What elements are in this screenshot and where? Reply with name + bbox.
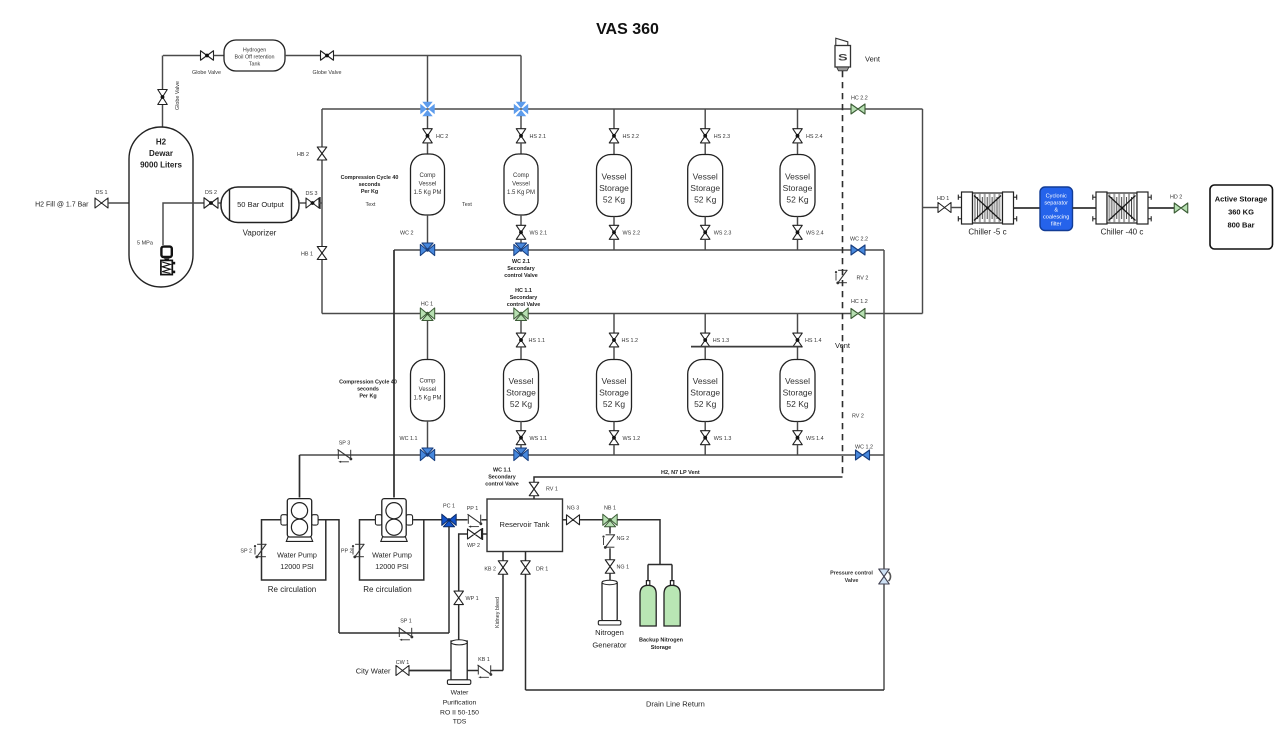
pressure control valve (879, 569, 890, 584)
vessel storage row1 col4 (688, 155, 723, 217)
valve HC 1.2 (851, 309, 865, 319)
svg-text:12000 PSI: 12000 PSI (375, 562, 409, 571)
valve PC 1 (3-way) (442, 514, 449, 525)
valve HB 2 (317, 147, 327, 160)
wire HS 1.1 to vessel row2 (520, 347, 522, 360)
svg-text:Vessel: Vessel (601, 376, 626, 386)
wire drop HC row to HS 1.3 (704, 314, 706, 334)
wire HS 2.3 to vessel (704, 143, 706, 155)
svg-text:Vessel: Vessel (785, 172, 810, 182)
svg-text:Drain Line Return: Drain Line Return (646, 700, 705, 709)
wire pump2 outlet to PC 1 (413, 519, 443, 521)
svg-text:PP 2: PP 2 (341, 549, 353, 555)
globe valve 2 (horizontal) (321, 51, 334, 61)
svg-text:WS 2.3: WS 2.3 (714, 231, 732, 237)
svg-text:9000 Liters: 9000 Liters (140, 161, 182, 170)
svg-text:WS 2.2: WS 2.2 (623, 231, 641, 237)
svg-text:Storage: Storage (783, 388, 813, 398)
wire col2 vessel to WS 1.1 (520, 421, 522, 431)
water pump 1 (281, 515, 288, 525)
globe valve (vertical, above dewar) (158, 90, 168, 105)
wire chiller1 to separator (1014, 207, 1041, 209)
valve HC 2 (423, 129, 433, 143)
svg-text:52 Kg: 52 Kg (694, 195, 716, 205)
svg-text:Vessel: Vessel (512, 182, 530, 188)
svg-text:seconds: seconds (359, 182, 381, 188)
valve WS 2.3 (700, 225, 710, 239)
wire retention tank to globe valve 2 (285, 55, 320, 57)
wire WS row line (300, 454, 885, 456)
svg-text:360 KG: 360 KG (1228, 208, 1254, 217)
wire WS 2.3 to WC row (704, 239, 706, 250)
wire drop to cross valve 2 (520, 56, 522, 104)
wire WP 2 line (459, 534, 487, 591)
water purification unit (451, 641, 467, 680)
valve WS 2.4 (793, 225, 803, 239)
wire NG 3 to NB 1 (580, 519, 604, 521)
svg-text:HC 1: HC 1 (421, 302, 433, 308)
wire DS 1 to dewar (108, 202, 129, 204)
svg-text:HC 1.2: HC 1.2 (851, 299, 868, 305)
wire WC row line (394, 249, 884, 251)
wire HS 2.2 to vessel (613, 143, 615, 155)
svg-text:HS 1.2: HS 1.2 (622, 338, 638, 344)
svg-text:Vessel: Vessel (601, 172, 626, 182)
cyclonic separator and coalescing filter (1040, 187, 1073, 231)
valve NB 1 (3-way) (603, 514, 610, 525)
svg-text:WC 1.1: WC 1.1 (400, 436, 418, 442)
svg-text:HS 2.1: HS 2.1 (530, 134, 546, 140)
valve PP 2 (355, 543, 364, 545)
wire col vessel to WS 2.4 (797, 217, 799, 226)
svg-text:WS 1.3: WS 1.3 (714, 436, 732, 442)
valve HS 2.3 (700, 129, 710, 143)
valve KB 1 (477, 665, 479, 674)
svg-text:Dewar: Dewar (149, 149, 173, 158)
svg-text:Comp: Comp (419, 173, 436, 179)
wire WS 1.2 to WS row (613, 445, 615, 455)
valve HS 1.1 (516, 333, 526, 347)
svg-text:Purification: Purification (443, 700, 477, 707)
svg-text:Vessel: Vessel (419, 387, 437, 393)
wire drain riser (883, 250, 885, 690)
svg-text:Reservoir Tank: Reservoir Tank (500, 520, 550, 529)
valve SP 2 (257, 543, 266, 545)
svg-text:Text: Text (462, 202, 472, 208)
wire WS row left drop to pump 1 (299, 455, 301, 498)
vessel storage row2 col2 (504, 360, 539, 422)
wire reservoir to NG 3 (563, 519, 567, 521)
svg-text:HS 1.4: HS 1.4 (805, 338, 821, 344)
svg-text:KB 2: KB 2 (484, 567, 496, 573)
wire WS 2.4 to WC row (797, 239, 799, 250)
svg-text:52 Kg: 52 Kg (786, 399, 808, 409)
wire right header vertical (922, 109, 924, 314)
svg-text:DS 3: DS 3 (306, 191, 318, 197)
connector line HS 1.3 - HS 1.4 (691, 346, 801, 348)
svg-text:WS 2.1: WS 2.1 (530, 231, 548, 237)
svg-text:Cyclonic: Cyclonic (1046, 194, 1067, 200)
svg-text:Chiller -40 c: Chiller -40 c (1101, 228, 1144, 237)
svg-text:DS 2: DS 2 (205, 190, 217, 196)
wire WS 1.1 to 3way (520, 445, 522, 449)
svg-text:Secondary: Secondary (510, 295, 538, 301)
svg-text:HD 1: HD 1 (937, 196, 949, 202)
svg-text:Nitrogen: Nitrogen (595, 628, 624, 637)
svg-text:PP 1: PP 1 (467, 506, 479, 512)
wire pump1 outlet to SP1 line (319, 520, 339, 633)
wire HD 1 to chiller 1 (951, 207, 962, 209)
valve HS 2.1 (516, 129, 526, 143)
svg-text:H2 Fill @ 1.7 Bar: H2 Fill @ 1.7 Bar (35, 202, 89, 209)
svg-text:HS 1.3: HS 1.3 (713, 338, 729, 344)
reservoir tank (487, 499, 563, 552)
svg-text:SP 2: SP 2 (240, 549, 252, 555)
nitrogen generator (602, 581, 617, 621)
valve WC 1.1 (3-way) (420, 449, 427, 460)
wire pump1 recirculation loop (262, 520, 326, 580)
svg-text:Vessel: Vessel (508, 376, 533, 386)
valve WS 2.1 (516, 225, 526, 239)
svg-text:Storage: Storage (690, 388, 720, 398)
valve HS 1.2 (609, 333, 619, 347)
wire boiloff line to compressor columns (334, 55, 521, 57)
svg-text:City Water: City Water (356, 667, 391, 676)
svg-text:KB 1: KB 1 (478, 657, 490, 663)
svg-text:Kidney bleed: Kidney bleed (495, 597, 501, 628)
svg-text:Re circulation: Re circulation (363, 585, 411, 594)
valve WP 1 (454, 591, 464, 605)
wire column drop HS 2.2 (613, 109, 615, 129)
vessel storage row1 col3 (597, 155, 632, 217)
svg-text:Water Pump: Water Pump (372, 551, 412, 560)
svg-text:PC 1: PC 1 (443, 504, 455, 510)
svg-text:WC 1.2: WC 1.2 (855, 445, 873, 451)
wire col1 vessel to WC 2 (427, 215, 429, 244)
svg-text:seconds: seconds (357, 387, 379, 393)
wire HC 2 to vessel (427, 143, 429, 155)
4-way valve top col1 (422, 102, 432, 108)
wire boiloff line left segment (163, 55, 201, 57)
svg-text:NB 1: NB 1 (604, 506, 616, 512)
valve CW 1 (396, 666, 409, 676)
wire column drop HC 2 (427, 116, 429, 129)
wire column drop HS 2.4 (797, 109, 799, 129)
wire NB 1 to backup bottles (617, 520, 660, 565)
svg-text:Compression Cycle 40: Compression Cycle 40 (339, 380, 397, 386)
wire HS 2.4 to vessel (797, 143, 799, 155)
wire HS 2.1 to vessel (520, 143, 522, 155)
svg-text:800 Bar: 800 Bar (1227, 221, 1254, 230)
vessel storage row2 col3 (597, 360, 632, 422)
valve WC 2 (3-way) (420, 244, 427, 255)
wire NG 2 to NG 1 (609, 548, 611, 560)
svg-text:12000 PSI: 12000 PSI (280, 562, 314, 571)
svg-text:WC 1.1: WC 1.1 (493, 468, 511, 474)
svg-text:control Valve: control Valve (507, 302, 541, 308)
wire drop HC row to HS 1.4 (797, 314, 799, 334)
wire col1 HC 1 to vessel row2 (427, 321, 429, 361)
svg-text:50 Bar Output: 50 Bar Output (237, 200, 285, 209)
svg-text:52 Kg: 52 Kg (603, 399, 625, 409)
svg-text:Backup Nitrogen: Backup Nitrogen (639, 638, 684, 644)
wire col vessel to WS 1.2 (613, 422, 615, 431)
comp vessel row2 col1 (411, 360, 445, 422)
valve DS 1 (95, 198, 108, 208)
valve WC 1.2 (856, 450, 870, 460)
valve WS 1.1 (516, 431, 526, 445)
wire DS 2 to vaporizer (218, 202, 221, 204)
wire col1 vessel to WC 1.1 (427, 421, 429, 449)
valve HS 2.4 (793, 129, 803, 143)
wire left header vertical (321, 109, 323, 314)
wire HD 1 branch (923, 207, 939, 209)
svg-text:HB 2: HB 2 (297, 152, 309, 158)
wire column drop HS 2.3 (704, 109, 706, 129)
svg-text:Compression Cycle 40: Compression Cycle 40 (341, 175, 399, 181)
svg-text:Globe Valve: Globe Valve (175, 81, 181, 110)
valve HD 2 (1174, 203, 1188, 213)
valve HC 2.2 (851, 104, 865, 114)
valve SP 3 (337, 450, 339, 459)
svg-text:WS 1.2: WS 1.2 (623, 436, 641, 442)
svg-text:control Valve: control Valve (485, 482, 519, 488)
wire CW 1 to purifier (409, 670, 451, 672)
wire WS 2.1 to WC 2.1 (520, 239, 522, 244)
valve HB 1 (317, 247, 327, 260)
svg-text:Comp: Comp (513, 173, 530, 179)
svg-text:SP 1: SP 1 (400, 619, 412, 625)
svg-text:WP 2: WP 2 (467, 543, 480, 549)
vent silencer symbol (836, 38, 848, 45)
svg-text:Storage: Storage (506, 388, 536, 398)
svg-text:H2, N7 LP Vent: H2, N7 LP Vent (661, 470, 700, 476)
wire KB 1 to kidney riser (491, 670, 503, 672)
svg-text:Vessel: Vessel (693, 376, 718, 386)
wire boiloff to retention tank (214, 55, 225, 57)
svg-text:TDS: TDS (453, 719, 467, 726)
valve WS 1.3 (700, 431, 710, 445)
wire drop HC row to HS 1.1 (520, 321, 522, 334)
wire WC row left drop to pump 2 (393, 250, 395, 498)
valve HD 1 (938, 203, 951, 213)
svg-text:5 MPa: 5 MPa (137, 241, 154, 247)
svg-text:Water Pump: Water Pump (277, 551, 317, 560)
svg-text:Storage: Storage (599, 388, 629, 398)
active storage box (1210, 185, 1273, 249)
svg-text:S: S (838, 53, 848, 63)
svg-text:RV 1: RV 1 (546, 487, 558, 493)
svg-text:CW 1: CW 1 (396, 660, 409, 666)
backup bottle manifold (648, 564, 672, 566)
svg-text:HC 2: HC 2 (436, 134, 448, 140)
svg-text:Vent: Vent (835, 341, 851, 350)
svg-text:52 Kg: 52 Kg (510, 399, 532, 409)
svg-text:WC 2.1: WC 2.1 (512, 259, 530, 265)
valve NG 1 (605, 560, 615, 574)
vessel storage row2 col4 (688, 360, 723, 422)
wire PC 1 to PP 1 (456, 519, 468, 521)
svg-text:Generator: Generator (592, 641, 627, 650)
svg-text:52 Kg: 52 Kg (786, 195, 808, 205)
svg-text:Globe Valve: Globe Valve (192, 70, 221, 76)
hydrogen boil off retention tank (224, 40, 285, 71)
wire PP 1 to reservoir (482, 519, 488, 521)
wire vaporizer to DS 3 (299, 202, 306, 204)
valve NG 3 (567, 515, 580, 525)
wire WS 1.3 to WS row (704, 445, 706, 455)
wire col vessel to WS 2.2 (613, 217, 615, 226)
wire PC 1 drop (448, 527, 450, 634)
wire DS 3 to header (319, 202, 322, 204)
svg-text:RV 2: RV 2 (852, 414, 864, 420)
valve WP 2 (check) (468, 529, 482, 539)
svg-text:Vessel: Vessel (693, 172, 718, 182)
wire chiller2 to HD 2 (1148, 207, 1174, 209)
wire kidney bleed riser (502, 552, 504, 671)
svg-text:Vessel: Vessel (785, 376, 810, 386)
svg-text:SP 3: SP 3 (339, 441, 351, 447)
wire col vessel to WS 2.3 (704, 217, 706, 226)
svg-text:Per Kg: Per Kg (359, 393, 376, 399)
svg-text:Hydrogen: Hydrogen (243, 48, 266, 54)
wire dewar internal tap (163, 203, 204, 245)
pressure regulator inside dewar (161, 247, 171, 257)
valve NG 2 (606, 534, 615, 536)
comp vessel 1 (row1 col1) (411, 154, 445, 215)
valve WC 2.2 (851, 245, 865, 255)
valve DS 2 (204, 198, 218, 209)
svg-text:Storage: Storage (599, 183, 629, 193)
wire boiloff riser from dewar (162, 56, 164, 128)
svg-text:Water: Water (451, 690, 470, 697)
svg-text:Re circulation: Re circulation (268, 585, 316, 594)
wire SP 1 line (339, 632, 449, 634)
wire NB 1 drop (609, 527, 611, 534)
svg-text:WS 1.4: WS 1.4 (806, 436, 824, 442)
wire col vessel to WS 1.4 (797, 422, 799, 431)
svg-text:Globe Valve: Globe Valve (313, 70, 342, 76)
water pump 2 (375, 515, 382, 525)
relief valve RV 2 (838, 269, 847, 271)
svg-text:RV 2: RV 2 (857, 276, 869, 282)
svg-text:Secondary: Secondary (488, 475, 516, 481)
svg-text:&: & (1054, 208, 1058, 214)
wire drain line return (526, 689, 885, 691)
valve HC 1 (3-way) (420, 308, 427, 319)
svg-text:HB 1: HB 1 (301, 252, 313, 258)
valve KB 2 (498, 561, 508, 575)
svg-text:Valve: Valve (845, 578, 859, 584)
svg-text:DR 1: DR 1 (536, 567, 548, 573)
svg-text:HD 2: HD 2 (1170, 195, 1182, 201)
vessel storage row1 col5 (780, 155, 815, 217)
wire WP 1 to purifier (458, 605, 460, 641)
svg-text:WC 2: WC 2 (400, 231, 413, 237)
svg-text:H2: H2 (156, 138, 167, 147)
svg-text:separator: separator (1044, 201, 1068, 207)
4-way valve top col2 (516, 102, 526, 108)
svg-text:Vent: Vent (865, 55, 881, 64)
svg-text:HC 1.1: HC 1.1 (515, 288, 532, 294)
svg-text:Vaporizer: Vaporizer (243, 229, 277, 238)
H2 dewar 9000 liters (129, 127, 193, 287)
wire WS 2.2 to WC row (613, 239, 615, 250)
svg-text:Boil Off retention: Boil Off retention (234, 55, 274, 61)
svg-text:Vessel: Vessel (419, 182, 437, 188)
wire NG 1 to nitrogen generator (609, 573, 611, 581)
svg-text:Text: Text (366, 202, 376, 208)
vaporizer 50 bar output (221, 187, 299, 223)
wire HC row line (322, 313, 923, 315)
valve HS 1.3 (700, 333, 710, 347)
svg-text:NG 3: NG 3 (567, 506, 580, 512)
valve PP 1 (467, 515, 469, 524)
svg-text:HS 2.3: HS 2.3 (714, 134, 730, 140)
svg-text:Active Storage: Active Storage (1215, 195, 1268, 204)
svg-text:control Valve: control Valve (504, 273, 538, 279)
wire WS 1.4 to WS row (797, 445, 799, 455)
valve WS 2.2 (609, 225, 619, 239)
svg-text:WS 1.1: WS 1.1 (530, 436, 548, 442)
svg-text:NG 1: NG 1 (617, 565, 630, 571)
valve DS 3 (check) (306, 198, 319, 208)
valve WC 1.1 secondary (3-way) (514, 449, 521, 460)
wire column drop HS 2.1 (520, 116, 522, 129)
valve SP 1 (398, 628, 400, 637)
svg-text:RO II 50-150: RO II 50-150 (440, 710, 479, 717)
svg-text:1.5 Kg PM: 1.5 Kg PM (507, 190, 535, 196)
backup nitrogen bottle 1 (646, 581, 649, 586)
valve WS 1.4 (793, 431, 803, 445)
valve WS 1.2 (609, 431, 619, 445)
wire separator to chiller2 (1073, 207, 1097, 209)
svg-text:Storage: Storage (651, 645, 671, 651)
svg-text:52 Kg: 52 Kg (603, 195, 625, 205)
svg-text:coalescing: coalescing (1043, 215, 1069, 221)
chiller -5 c (962, 192, 973, 224)
svg-text:HS 1.1: HS 1.1 (529, 338, 545, 344)
svg-text:Tank: Tank (249, 62, 261, 68)
svg-text:HS 2.4: HS 2.4 (806, 134, 822, 140)
valve WC 2.1 (3-way) (514, 244, 521, 255)
svg-text:NG 2: NG 2 (617, 536, 630, 542)
wire col2 vessel to WS 2.1 (520, 215, 522, 225)
svg-text:WS 2.4: WS 2.4 (806, 231, 824, 237)
wire drop to cross valve 1 (427, 56, 429, 104)
wire pump2 recirculation loop (360, 520, 424, 580)
valve HS 2.2 (609, 129, 619, 143)
wire col vessel to WS 1.3 (704, 422, 706, 431)
svg-text:HC 2.2: HC 2.2 (851, 96, 868, 102)
svg-text:filter: filter (1051, 222, 1062, 228)
wire HS 1.3 to vessel row2 (704, 347, 706, 360)
wire purifier to KB 1 (468, 670, 479, 672)
svg-text:Pressure control: Pressure control (830, 571, 873, 577)
svg-text:Chiller -5 c: Chiller -5 c (968, 228, 1006, 237)
wire DR 1 riser (525, 552, 527, 691)
vessel storage row2 col5 (780, 360, 815, 422)
vent dashed line (842, 71, 844, 477)
chiller -40 c (1096, 192, 1107, 224)
valve HC 1.1 (3-way) (514, 308, 521, 319)
svg-text:Comp: Comp (419, 379, 436, 385)
wire top header line (322, 108, 923, 110)
backup nitrogen bottle 2 (670, 581, 673, 586)
svg-text:Storage: Storage (690, 183, 720, 193)
svg-text:1.5 Kg PM: 1.5 Kg PM (413, 396, 441, 402)
svg-text:52 Kg: 52 Kg (694, 399, 716, 409)
